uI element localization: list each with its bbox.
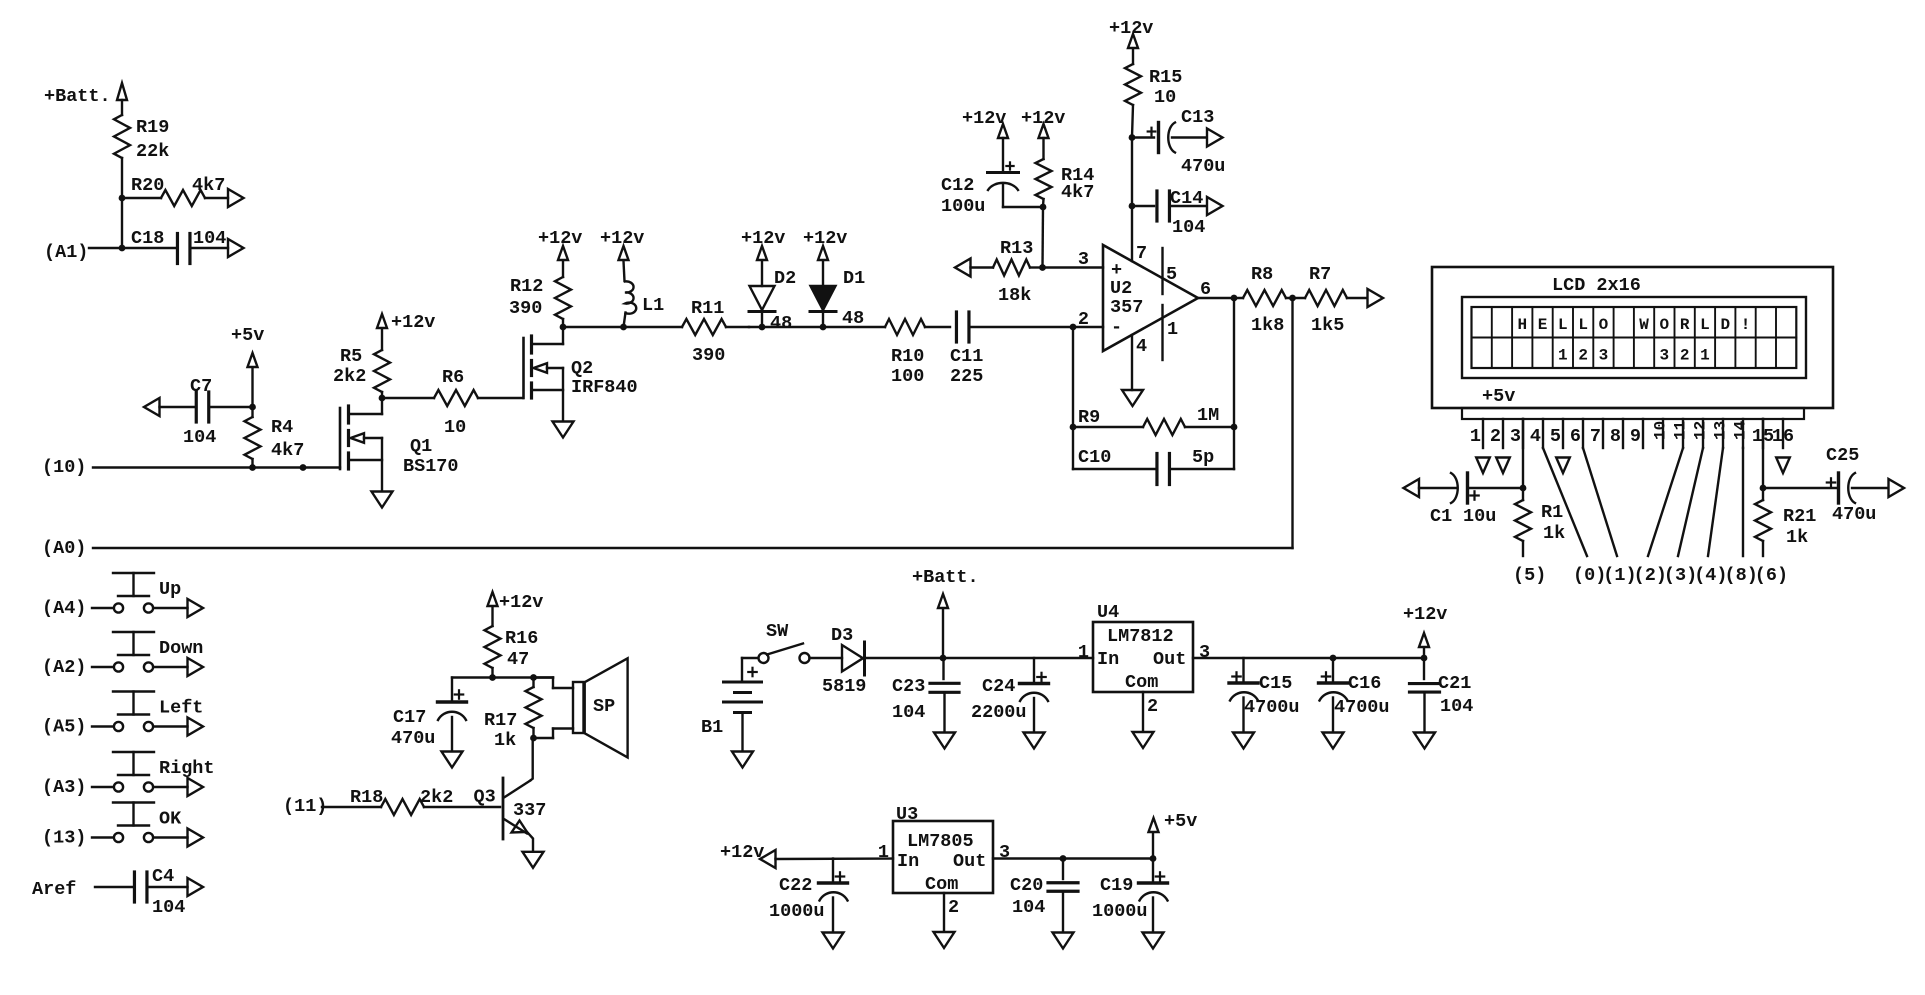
svg-text:3: 3	[1599, 347, 1609, 365]
svg-text:C4: C4	[152, 866, 174, 887]
svg-text:1: 1	[1167, 319, 1178, 340]
svg-text:Out: Out	[1153, 649, 1186, 670]
svg-text:470u: 470u	[1832, 504, 1876, 525]
svg-text:Down: Down	[159, 638, 203, 659]
svg-text:(8): (8)	[1725, 565, 1758, 586]
svg-text:R7: R7	[1309, 264, 1331, 285]
svg-text:16: 16	[1772, 426, 1794, 447]
svg-text:(10): (10)	[42, 457, 86, 478]
svg-text:100u: 100u	[941, 196, 985, 217]
svg-text:C18: C18	[131, 228, 164, 249]
svg-text:+12v: +12v	[499, 592, 543, 613]
svg-text:470u: 470u	[1181, 156, 1225, 177]
svg-text:(3): (3)	[1664, 565, 1697, 586]
svg-text:104: 104	[892, 702, 925, 723]
svg-text:R8: R8	[1251, 264, 1273, 285]
svg-text:C7: C7	[190, 376, 212, 397]
svg-text:C21: C21	[1438, 673, 1471, 694]
svg-text:2: 2	[1078, 309, 1089, 330]
svg-text:Right: Right	[159, 758, 215, 779]
svg-text:9: 9	[1630, 426, 1641, 447]
svg-text:SW: SW	[766, 621, 789, 642]
svg-text:R1: R1	[1541, 502, 1563, 523]
svg-text:C13: C13	[1181, 107, 1214, 128]
svg-text:10: 10	[444, 417, 466, 438]
svg-text:337: 337	[513, 800, 546, 821]
svg-text:2: 2	[1490, 426, 1501, 447]
svg-text:L: L	[1700, 316, 1710, 334]
svg-text:1000u: 1000u	[769, 901, 825, 922]
svg-text:Q1: Q1	[410, 436, 432, 457]
svg-text:1: 1	[878, 842, 889, 863]
svg-text:LM7812: LM7812	[1107, 626, 1174, 647]
svg-text:13: 13	[1712, 421, 1730, 440]
svg-text:D3: D3	[831, 625, 853, 646]
svg-text:Q2: Q2	[571, 358, 593, 379]
svg-text:22k: 22k	[136, 141, 169, 162]
svg-text:C17: C17	[393, 707, 426, 728]
svg-text:1: 1	[1558, 347, 1568, 365]
svg-text:12: 12	[1692, 421, 1710, 440]
svg-text:(13): (13)	[42, 828, 86, 849]
svg-text:10u: 10u	[1463, 506, 1496, 527]
svg-text:+12v: +12v	[720, 842, 764, 863]
svg-text:4k7: 4k7	[1061, 182, 1094, 203]
svg-text:4: 4	[1136, 336, 1147, 357]
svg-text:C15: C15	[1259, 673, 1292, 694]
svg-text:357: 357	[1110, 297, 1143, 318]
svg-text:1k8: 1k8	[1251, 315, 1284, 336]
svg-text:IRF840: IRF840	[571, 377, 638, 398]
svg-text:2: 2	[948, 897, 959, 918]
svg-text:L1: L1	[642, 295, 664, 316]
svg-text:2: 2	[1680, 347, 1690, 365]
svg-text:+5v: +5v	[1482, 386, 1515, 407]
svg-text:+Batt.: +Batt.	[44, 86, 111, 107]
svg-text:C14: C14	[1170, 188, 1203, 209]
svg-text:R5: R5	[340, 346, 362, 367]
svg-text:104: 104	[1172, 217, 1205, 238]
svg-text:5819: 5819	[822, 676, 866, 697]
svg-text:R19: R19	[136, 117, 169, 138]
svg-text:100: 100	[891, 366, 924, 387]
svg-text:(5): (5)	[1513, 565, 1546, 586]
svg-text:!: !	[1741, 316, 1751, 334]
svg-text:6: 6	[1570, 426, 1581, 447]
svg-text:C16: C16	[1348, 673, 1381, 694]
svg-text:BS170: BS170	[403, 456, 459, 477]
svg-text:390: 390	[692, 345, 725, 366]
svg-text:D2: D2	[774, 268, 796, 289]
svg-text:OK: OK	[159, 809, 182, 830]
svg-text:U2: U2	[1110, 278, 1132, 299]
svg-text:4k7: 4k7	[271, 440, 304, 461]
svg-text:R15: R15	[1149, 67, 1182, 88]
svg-text:R13: R13	[1000, 238, 1033, 259]
svg-text:(6): (6)	[1755, 565, 1788, 586]
svg-text:C25: C25	[1826, 445, 1859, 466]
svg-text:1: 1	[1700, 347, 1710, 365]
svg-text:Com: Com	[925, 874, 958, 895]
svg-text:Com: Com	[1125, 672, 1158, 693]
svg-text:48: 48	[842, 308, 864, 329]
svg-text:104: 104	[1440, 696, 1473, 717]
svg-text:(0): (0)	[1573, 565, 1606, 586]
svg-text:R18: R18	[350, 787, 383, 808]
svg-text:R11: R11	[691, 298, 724, 319]
svg-text:Up: Up	[159, 579, 181, 600]
svg-text:R: R	[1680, 316, 1690, 334]
svg-text:H: H	[1517, 316, 1527, 334]
svg-text:R9: R9	[1078, 407, 1100, 428]
svg-text:LCD 2x16: LCD 2x16	[1552, 275, 1641, 296]
svg-text:+5v: +5v	[231, 325, 264, 346]
svg-text:2k2: 2k2	[333, 366, 366, 387]
svg-text:+12v: +12v	[538, 228, 582, 249]
svg-text:4: 4	[1530, 426, 1541, 447]
svg-text:10: 10	[1154, 87, 1176, 108]
svg-text:1: 1	[1470, 426, 1481, 447]
svg-text:104: 104	[1012, 897, 1045, 918]
svg-text:R4: R4	[271, 417, 293, 438]
svg-text:3: 3	[1078, 249, 1089, 270]
svg-text:(A0): (A0)	[42, 538, 86, 559]
svg-text:(A2): (A2)	[42, 657, 86, 678]
svg-text:+12v: +12v	[741, 228, 785, 249]
svg-text:47: 47	[507, 649, 529, 670]
svg-text:C11: C11	[950, 346, 983, 367]
svg-text:C24: C24	[982, 676, 1015, 697]
svg-text:D: D	[1720, 316, 1730, 334]
svg-text:225: 225	[950, 366, 983, 387]
svg-text:3: 3	[1199, 642, 1210, 663]
svg-text:Q3: Q3	[474, 787, 496, 808]
svg-text:+12v: +12v	[962, 108, 1006, 129]
svg-text:In: In	[1097, 649, 1119, 670]
svg-text:1k5: 1k5	[1311, 315, 1344, 336]
svg-text:4700u: 4700u	[1334, 697, 1390, 718]
svg-text:-: -	[1111, 317, 1122, 338]
svg-text:C23: C23	[892, 676, 925, 697]
svg-text:(4): (4)	[1694, 565, 1727, 586]
svg-text:R16: R16	[505, 628, 538, 649]
svg-text:1k: 1k	[1543, 523, 1565, 544]
svg-text:14: 14	[1732, 420, 1750, 440]
svg-text:2: 2	[1147, 696, 1158, 717]
svg-text:C12: C12	[941, 175, 974, 196]
svg-text:2200u: 2200u	[971, 702, 1027, 723]
svg-text:104: 104	[183, 427, 216, 448]
svg-text:U3: U3	[896, 804, 918, 825]
svg-text:Aref: Aref	[32, 879, 76, 900]
svg-text:D1: D1	[843, 268, 865, 289]
svg-text:5: 5	[1550, 426, 1561, 447]
svg-text:R6: R6	[442, 367, 464, 388]
svg-text:SP: SP	[593, 696, 615, 717]
svg-text:E: E	[1538, 316, 1548, 334]
svg-text:(A5): (A5)	[42, 717, 86, 738]
svg-text:+12v: +12v	[1403, 604, 1447, 625]
svg-text:C22: C22	[779, 875, 812, 896]
svg-text:470u: 470u	[391, 728, 435, 749]
svg-text:1M: 1M	[1197, 405, 1219, 426]
svg-text:In: In	[897, 851, 919, 872]
svg-text:+12v: +12v	[803, 228, 847, 249]
svg-text:390: 390	[509, 298, 542, 319]
svg-text:Left: Left	[159, 698, 203, 719]
svg-text:C10: C10	[1078, 447, 1111, 468]
svg-text:4k7: 4k7	[192, 175, 225, 196]
svg-text:+12v: +12v	[600, 228, 644, 249]
svg-text:3: 3	[999, 842, 1010, 863]
svg-text:+Batt.: +Batt.	[912, 567, 979, 588]
svg-text:C1: C1	[1430, 506, 1452, 527]
svg-text:8: 8	[1610, 426, 1621, 447]
svg-text:LM7805: LM7805	[907, 831, 974, 852]
svg-text:(1): (1)	[1603, 565, 1636, 586]
svg-text:2k2: 2k2	[420, 787, 453, 808]
svg-text:R12: R12	[510, 276, 543, 297]
svg-text:1k: 1k	[494, 730, 516, 751]
svg-text:+5v: +5v	[1164, 811, 1197, 832]
svg-text:48: 48	[770, 313, 792, 334]
svg-text:11: 11	[1672, 421, 1690, 440]
svg-text:10: 10	[1652, 421, 1670, 440]
svg-text:(A1): (A1)	[44, 242, 88, 263]
svg-text:7: 7	[1136, 243, 1147, 264]
svg-text:2: 2	[1578, 347, 1588, 365]
svg-text:4700u: 4700u	[1244, 697, 1300, 718]
svg-text:18k: 18k	[998, 285, 1031, 306]
svg-text:R20: R20	[131, 175, 164, 196]
svg-text:L: L	[1558, 316, 1568, 334]
svg-text:W: W	[1639, 316, 1649, 334]
svg-text:1k: 1k	[1786, 527, 1808, 548]
svg-text:R10: R10	[891, 346, 924, 367]
svg-text:(A4): (A4)	[42, 598, 86, 619]
svg-text:R17: R17	[484, 710, 517, 731]
svg-text:B1: B1	[701, 717, 723, 738]
svg-text:6: 6	[1200, 279, 1211, 300]
svg-text:O: O	[1660, 316, 1670, 334]
svg-text:(2): (2)	[1634, 565, 1667, 586]
svg-text:U4: U4	[1097, 602, 1119, 623]
svg-text:1: 1	[1078, 642, 1089, 663]
svg-text:5: 5	[1166, 264, 1177, 285]
svg-text:+12v: +12v	[391, 312, 435, 333]
svg-text:1000u: 1000u	[1092, 901, 1148, 922]
svg-text:104: 104	[152, 897, 185, 918]
svg-text:5p: 5p	[1192, 447, 1214, 468]
svg-text:R21: R21	[1783, 506, 1816, 527]
svg-text:O: O	[1599, 316, 1609, 334]
svg-text:L: L	[1578, 316, 1588, 334]
svg-text:C20: C20	[1010, 875, 1043, 896]
svg-text:Out: Out	[953, 851, 986, 872]
svg-text:3: 3	[1660, 347, 1670, 365]
svg-text:7: 7	[1590, 426, 1601, 447]
svg-text:(A3): (A3)	[42, 777, 86, 798]
svg-text:3: 3	[1510, 426, 1521, 447]
svg-text:104: 104	[193, 228, 226, 249]
svg-text:(11): (11)	[283, 796, 327, 817]
svg-text:C19: C19	[1100, 875, 1133, 896]
